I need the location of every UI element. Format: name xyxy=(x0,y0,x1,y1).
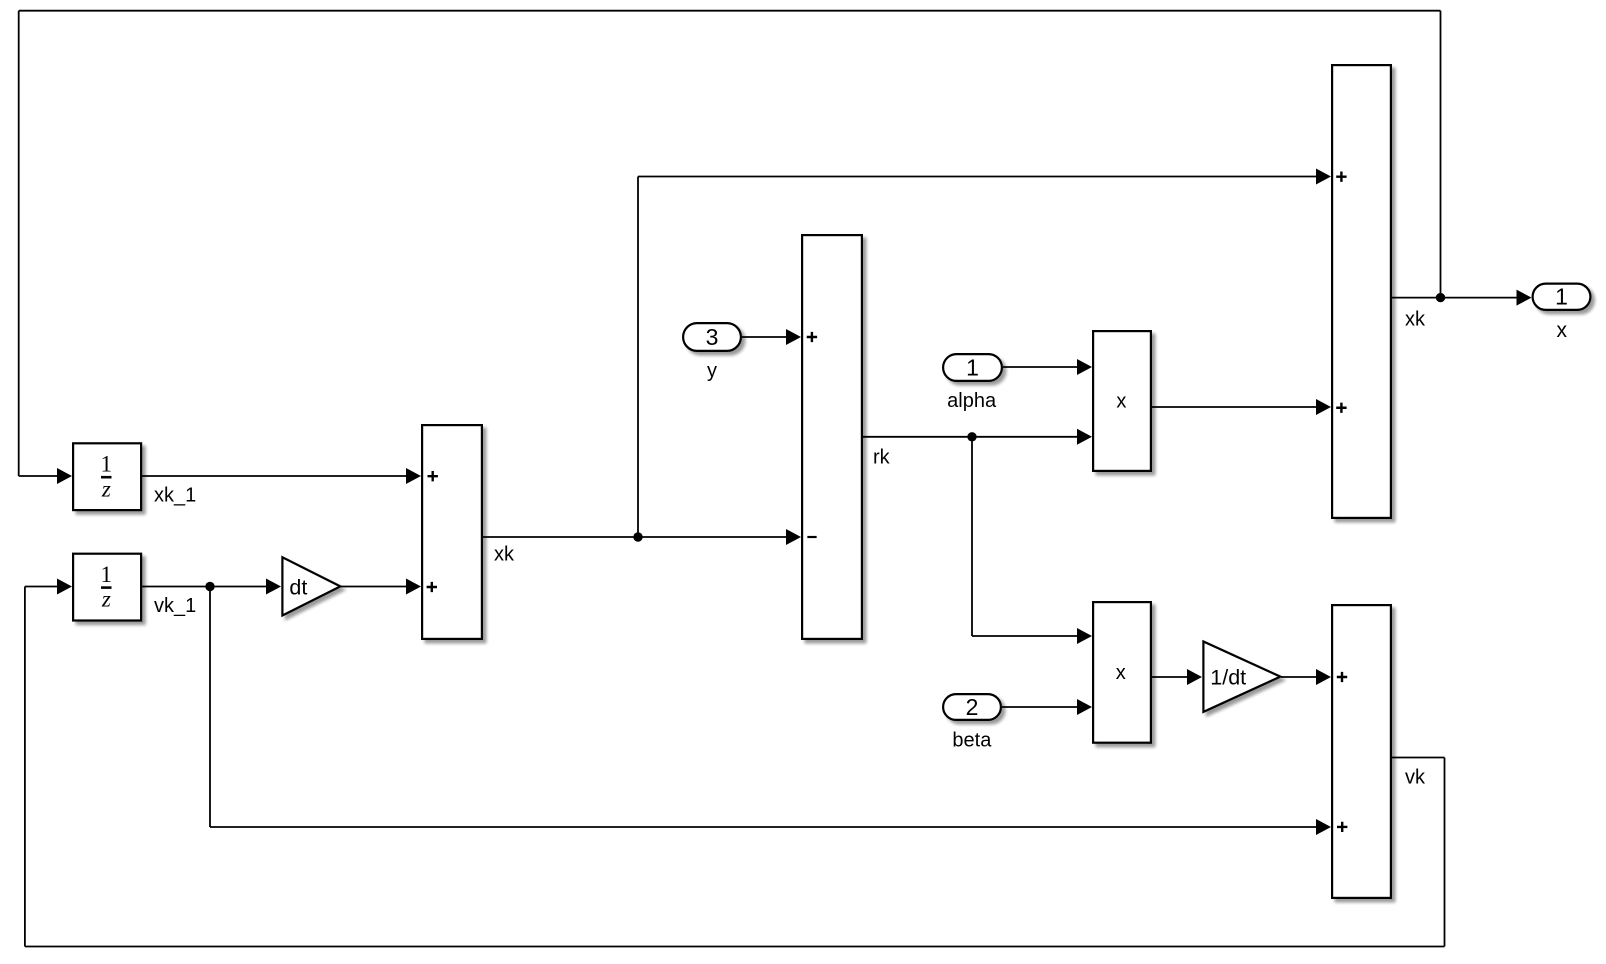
node vk_1 branch junction xyxy=(205,582,214,591)
svg-text:3: 3 xyxy=(706,324,719,350)
svg-text:z: z xyxy=(101,476,111,501)
wire Sum2 out rk to Product1 xyxy=(863,429,1092,445)
unit delay block vk_1 xyxy=(73,554,141,621)
wire Sum xk out to outport x xyxy=(1392,290,1532,306)
svg-text:1: 1 xyxy=(101,562,113,587)
wire Product1 to Sum xk plus2 xyxy=(1152,399,1331,415)
svg-text:dt: dt xyxy=(289,575,307,599)
svg-text:xk: xk xyxy=(494,544,515,566)
label vk xyxy=(1405,767,1426,789)
label x (outport) xyxy=(1557,319,1568,342)
svg-text:1: 1 xyxy=(966,354,979,380)
wire Gain 1/dt to Sum vk plus1 xyxy=(1281,669,1331,685)
outport 1 x xyxy=(1533,284,1591,310)
node rk branch junction xyxy=(967,432,976,441)
svg-text:1: 1 xyxy=(101,452,113,477)
wire vk feedback (vk to vk_1) xyxy=(25,579,1445,947)
wire inport y to Sum2 plus xyxy=(742,329,801,345)
sum block Sum vk xyxy=(1332,605,1391,898)
svg-text:x: x xyxy=(1116,662,1126,684)
inport 2 beta xyxy=(943,694,1001,720)
wire Product2 to Gain 1/dt xyxy=(1152,669,1202,685)
svg-text:xk: xk xyxy=(1405,309,1426,331)
svg-text:x: x xyxy=(1116,391,1126,413)
node xk branch junction xyxy=(633,532,642,541)
inport 1 alpha xyxy=(943,354,1002,381)
wire xk branch to Sum xk plus1 xyxy=(638,169,1331,538)
label y xyxy=(707,360,717,382)
svg-text:z: z xyxy=(101,587,111,612)
gain block dt xyxy=(282,557,340,615)
product block Product2 xyxy=(1093,602,1151,743)
label xk (Sum1 output) xyxy=(494,544,515,566)
svg-text:y: y xyxy=(707,360,717,382)
label xk (output net) xyxy=(1405,309,1426,331)
product block Product1 xyxy=(1093,331,1151,471)
wire xk_1 to Sum1 plus1 xyxy=(142,468,421,484)
unit delay block xk_1 xyxy=(73,443,141,510)
svg-text:vk: vk xyxy=(1405,767,1426,789)
wire inport alpha to Product1 xyxy=(1003,359,1092,375)
inport 3 y xyxy=(683,323,741,351)
gain block 1/dt xyxy=(1203,641,1280,711)
wire vk_1 to Gain dt xyxy=(142,579,281,595)
svg-text:rk: rk xyxy=(873,446,891,468)
sum block Sum2 xyxy=(802,235,862,639)
wire rk branch to Product2 xyxy=(972,437,1092,644)
svg-text:vk_1: vk_1 xyxy=(154,595,196,617)
label alpha xyxy=(947,390,997,412)
svg-text:alpha: alpha xyxy=(947,390,997,412)
sum block Sum1 xyxy=(422,425,482,639)
node xk output junction xyxy=(1436,293,1445,302)
wire inport beta to Product2 xyxy=(1002,699,1092,715)
wire vk_1 branch to Sum vk plus2 xyxy=(210,587,1331,836)
label rk (Sum2 output) xyxy=(873,446,891,468)
svg-text:1/dt: 1/dt xyxy=(1210,666,1246,690)
sum block Sum xk xyxy=(1332,65,1391,518)
wire xk feedback (xk to xk_1) xyxy=(19,11,1441,484)
wire Gain dt to Sum1 plus2 xyxy=(341,579,421,595)
label beta xyxy=(952,730,992,752)
label vk_1 xyxy=(154,595,196,617)
label xk_1 xyxy=(154,485,196,507)
svg-text:2: 2 xyxy=(966,694,979,720)
svg-text:x: x xyxy=(1557,319,1568,342)
wire Sum1 out xk to Sum2 minus xyxy=(483,529,801,545)
svg-text:beta: beta xyxy=(952,730,992,752)
svg-text:xk_1: xk_1 xyxy=(154,485,196,507)
svg-text:1: 1 xyxy=(1555,284,1568,310)
